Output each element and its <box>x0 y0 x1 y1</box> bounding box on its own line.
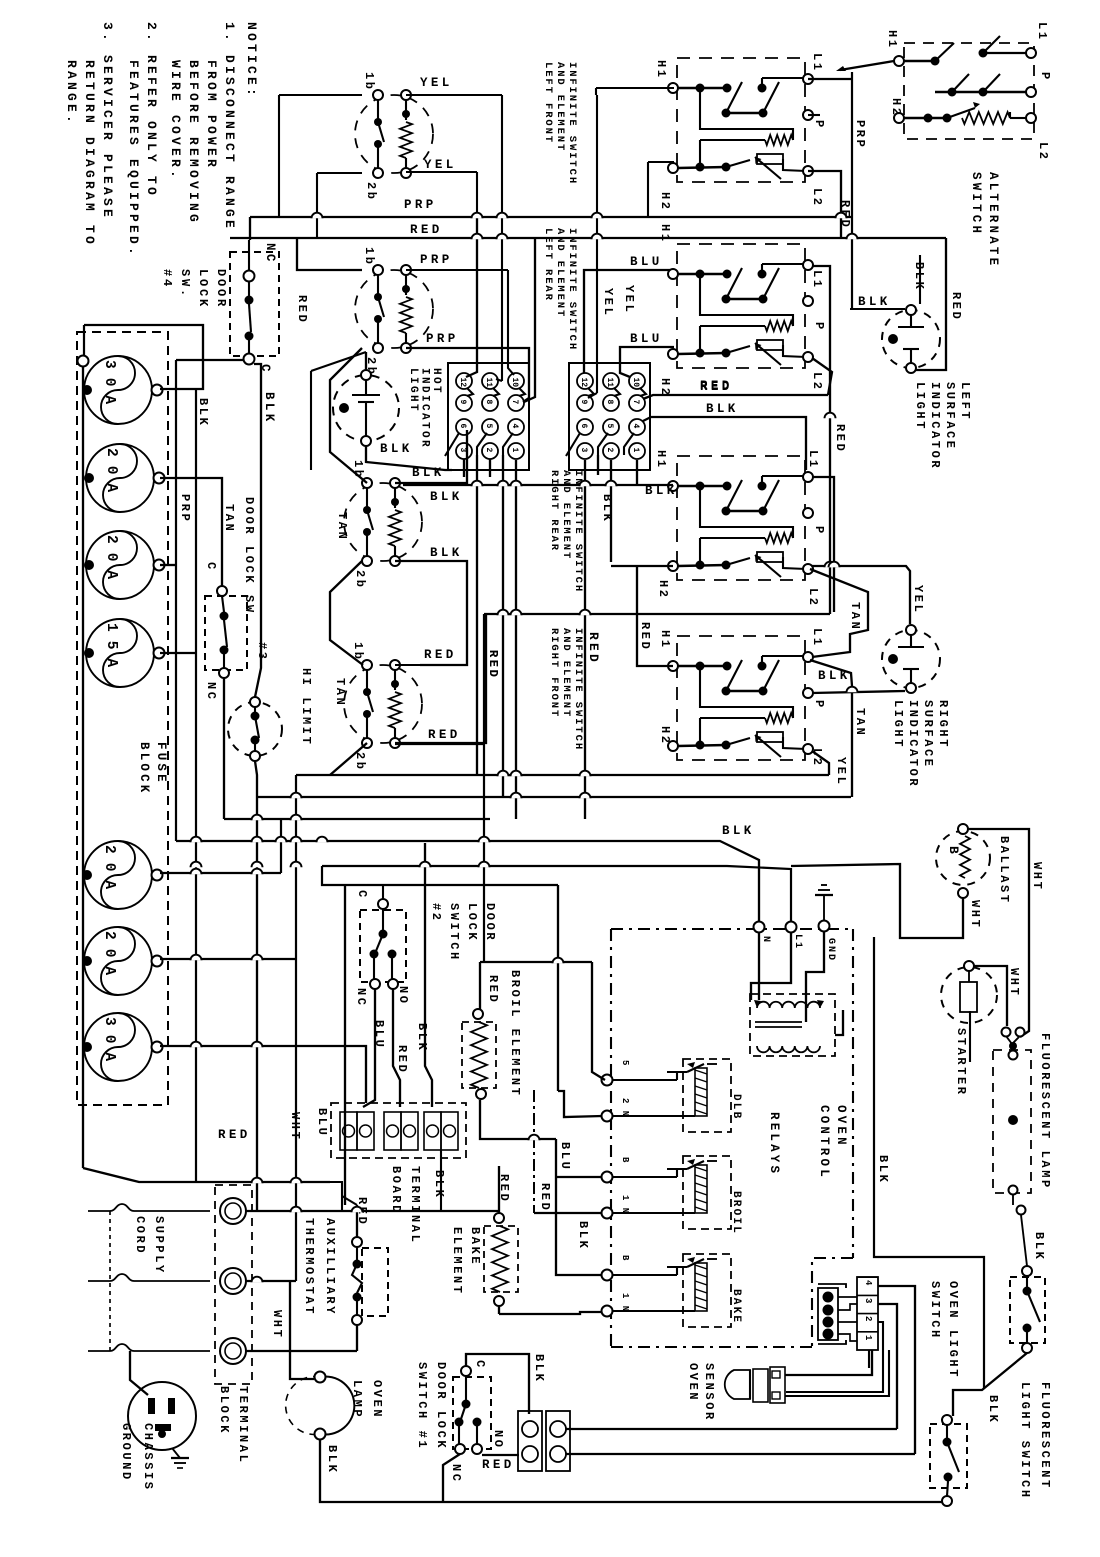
wire to BROIL <box>556 1176 602 1178</box>
svg-text:PRP: PRP <box>178 494 192 523</box>
wire WHT to lamp <box>290 1281 314 1379</box>
svg-text:HOT: HOT <box>430 368 442 395</box>
svg-text:YEL: YEL <box>601 288 615 317</box>
svg-text:1. DISCONNECT RANGE: 1. DISCONNECT RANGE <box>222 22 237 231</box>
svg-text:5: 5 <box>620 1060 630 1066</box>
svg-text:L1: L1 <box>810 628 824 648</box>
jumper wire <box>614 388 620 396</box>
connector pair 2 <box>384 1112 401 1150</box>
jumper wire <box>445 433 459 456</box>
jumper wire <box>503 433 513 455</box>
svg-text:30A: 30A <box>101 360 117 413</box>
wire RR L1 right <box>812 477 834 612</box>
wire BLK right long <box>874 937 984 1388</box>
svg-text:OVEN: OVEN <box>834 1105 848 1148</box>
svg-text:RANGE.: RANGE. <box>64 60 79 126</box>
svg-text:P: P <box>812 700 826 710</box>
ballast <box>936 831 990 885</box>
terminal 12 <box>577 373 593 389</box>
svg-text:N: N <box>760 936 771 944</box>
wire RED vertical x484 <box>483 614 485 962</box>
terminal stud 2 <box>220 1268 246 1294</box>
contact <box>952 74 969 92</box>
wire YEL down to board2-9 <box>596 95 598 393</box>
terminal H2 <box>668 349 678 359</box>
svg-text:RED: RED <box>586 632 601 665</box>
svg-text:10: 10 <box>631 378 640 388</box>
wire <box>365 380 367 395</box>
relay BAKE <box>683 1254 731 1327</box>
svg-text:NC: NC <box>204 682 218 702</box>
svg-text:BLU: BLU <box>630 255 663 269</box>
svg-text:OVEN: OVEN <box>686 1363 700 1402</box>
terminal C SW3 <box>217 586 227 596</box>
wire RR L2 YEL to right light <box>812 566 910 624</box>
wire NO to connector <box>482 1454 519 1456</box>
terminal element left top <box>373 90 383 100</box>
wire pin to switch <box>1021 1215 1027 1266</box>
svg-text:BLK: BLK <box>576 1221 590 1250</box>
wire H1 <box>678 485 727 488</box>
svg-text:WHT: WHT <box>288 1112 302 1141</box>
jumper wire <box>467 388 473 396</box>
wire fuse5 <box>160 872 281 874</box>
thermal arm <box>947 108 975 118</box>
wire fuse3 <box>160 564 176 566</box>
terminal L2 <box>803 352 813 362</box>
element coil <box>400 297 412 333</box>
wire LF bottom left <box>317 172 362 174</box>
wire <box>910 315 912 327</box>
svg-text:B: B <box>620 1255 630 1261</box>
terminal 1 <box>508 443 524 459</box>
wire fuse left bus <box>82 355 84 1168</box>
svg-text:WIRE COVER.: WIRE COVER. <box>168 60 183 181</box>
svg-text:NC: NC <box>263 243 277 265</box>
oven control box <box>611 928 853 930</box>
svg-text:LOCK: LOCK <box>465 903 479 942</box>
svg-text:SURFACE: SURFACE <box>921 700 935 769</box>
fuse 30A <box>84 356 152 424</box>
wire <box>366 670 368 692</box>
terminal element left top <box>373 265 383 275</box>
terminal L2 <box>803 564 813 574</box>
wire vertical x176 <box>175 360 177 841</box>
wire hot light bottom to board <box>366 446 452 470</box>
svg-text:RED: RED <box>486 975 500 1004</box>
svg-text:NC: NC <box>354 988 368 1008</box>
svg-text:3. SERVICER PLEASE: 3. SERVICER PLEASE <box>100 22 115 220</box>
thermal arm arrow <box>755 157 781 179</box>
wire BLK long vertical <box>195 389 197 1182</box>
svg-text:BLK: BLK <box>1032 1232 1046 1261</box>
svg-text:H1: H1 <box>654 450 668 470</box>
svg-text:SWITCH: SWITCH <box>928 1281 942 1340</box>
wire board2-3 down <box>584 460 586 819</box>
svg-text:P: P <box>1038 72 1052 82</box>
terminal relay bottom <box>602 1111 613 1122</box>
terminal <box>250 697 260 707</box>
svg-text:TAN: TAN <box>222 504 236 533</box>
terminal relay top <box>602 1270 613 1281</box>
svg-text:NOTICE:: NOTICE: <box>244 22 259 99</box>
terminal H2 <box>668 561 678 571</box>
terminal 6 <box>577 419 593 435</box>
terminal 8 <box>603 395 619 411</box>
wire RR H2 to RF H1 jog <box>637 566 673 666</box>
resistor alt <box>962 112 1010 124</box>
terminal L2 <box>803 166 813 176</box>
svg-text:LEFT FRONT: LEFT FRONT <box>542 62 554 144</box>
svg-text:H1: H1 <box>658 224 672 244</box>
terminal light top <box>906 625 916 635</box>
wire down to PRP bus <box>278 95 280 217</box>
svg-text:L2: L2 <box>810 188 824 208</box>
wire cord bundle <box>109 1211 111 1351</box>
svg-text:NO: NO <box>491 1430 505 1450</box>
switch contacts <box>722 687 731 696</box>
terminal NC SW3 <box>219 668 229 678</box>
infinite switch right front <box>677 636 805 760</box>
wire <box>280 819 282 873</box>
svg-text:LIGHT: LIGHT <box>913 382 927 431</box>
terminal 3 <box>577 443 593 459</box>
terminal element left bottom <box>362 738 372 748</box>
thermal arm arrow <box>755 735 781 757</box>
wire BLK to left light <box>850 308 905 310</box>
jumper wire <box>588 388 594 396</box>
wire RED board2-7 to L2 <box>643 395 828 399</box>
svg-text:BLK: BLK <box>722 824 755 838</box>
svg-text:BLU: BLU <box>630 332 663 346</box>
wire stud3 <box>246 1350 357 1352</box>
terminal relay top <box>602 1172 613 1183</box>
terminal board middle <box>331 1103 466 1158</box>
wire to BROIL 2 <box>534 1212 602 1214</box>
surface element unit <box>344 483 422 561</box>
svg-text:B: B <box>620 1157 630 1163</box>
surface element unit <box>355 95 433 173</box>
wire <box>968 971 970 982</box>
infinite switch right rear <box>677 456 805 580</box>
svg-text:RETURN DIAGRAM TO: RETURN DIAGRAM TO <box>82 60 97 247</box>
wire RR right top <box>395 430 467 483</box>
svg-text:GROUND: GROUND <box>119 1423 133 1482</box>
svg-text:2. REFER ONLY TO: 2. REFER ONLY TO <box>144 22 159 198</box>
terminal H2 alt <box>894 113 904 123</box>
alternate switch <box>904 43 1034 139</box>
jumper wire <box>519 388 525 396</box>
svg-text:TERMINAL: TERMINAL <box>236 1386 250 1464</box>
wire <box>946 1425 948 1438</box>
terminal element right bottom <box>390 556 400 566</box>
wire <box>377 275 379 297</box>
svg-text:WHT: WHT <box>270 1310 284 1339</box>
terminal starter top <box>964 961 974 971</box>
wire strip3 long <box>878 1304 897 1429</box>
contact <box>983 36 1000 53</box>
svg-text:C: C <box>355 890 369 900</box>
switch contact <box>367 692 373 712</box>
terminal 5 <box>482 419 498 435</box>
svg-text:YEL: YEL <box>424 158 457 172</box>
svg-text:C: C <box>204 562 218 572</box>
oven sensor bulb <box>725 1370 750 1399</box>
svg-text:HI LIMIT: HI LIMIT <box>299 668 313 746</box>
wire RR 2b chain to RF 1b <box>330 561 363 665</box>
ground symbol chassis <box>172 1448 180 1458</box>
svg-text:L1: L1 <box>806 450 820 470</box>
svg-text:12: 12 <box>458 378 467 388</box>
svg-text:BLK: BLK <box>415 1023 429 1052</box>
terminal L1 <box>786 922 797 933</box>
svg-text:3: 3 <box>863 1298 873 1303</box>
terminal L1 <box>803 652 813 662</box>
wire PRP bus to NC <box>249 217 251 240</box>
wire board1-2 stub <box>489 459 491 477</box>
svg-text:BLK: BLK <box>876 1155 890 1184</box>
svg-text:CONTROL: CONTROL <box>817 1105 831 1180</box>
wire PRP down to board <box>508 270 514 375</box>
svg-text:2: 2 <box>605 448 614 453</box>
wire C BLK up <box>466 1354 529 1414</box>
svg-text:BAKE: BAKE <box>730 1289 742 1324</box>
fuse block outline <box>77 332 168 1105</box>
svg-text:SENSOR: SENSOR <box>702 1363 716 1422</box>
svg-text:L2: L2 <box>1036 142 1050 162</box>
svg-text:5: 5 <box>484 424 493 429</box>
wire <box>377 100 379 122</box>
heater loop resistor <box>700 666 793 718</box>
svg-text:FLUORESCENT LAMP: FLUORESCENT LAMP <box>1038 1033 1052 1190</box>
terminal element left bottom <box>373 343 383 353</box>
svg-text:CHASSIS: CHASSIS <box>141 1423 155 1492</box>
terminal C SW4 <box>244 354 255 365</box>
svg-text:FUSE: FUSE <box>154 742 168 785</box>
svg-text:H2: H2 <box>658 726 672 746</box>
contact <box>352 1264 362 1293</box>
wire H1 LF <box>596 87 674 89</box>
wire stud2 WHT <box>246 1280 296 1282</box>
thermal arm arrow <box>755 343 781 365</box>
hi-limit thermostat <box>228 702 282 756</box>
door lock switch SW3 <box>205 596 247 670</box>
terminal relay bottom <box>602 1306 613 1317</box>
terminal H1 <box>668 269 678 279</box>
svg-text:NC: NC <box>449 1464 463 1484</box>
terminal fuse bus top <box>78 356 89 367</box>
contact <box>255 716 259 738</box>
dot <box>339 403 349 413</box>
svg-text:BOARD: BOARD <box>389 1166 403 1215</box>
svg-text:RED: RED <box>424 648 457 662</box>
wire <box>377 144 379 168</box>
fuse 20A <box>86 444 154 512</box>
fuse 20A <box>84 927 152 995</box>
svg-text:WHT: WHT <box>1030 862 1044 891</box>
terminal light bottom <box>906 363 916 373</box>
ballast coil <box>960 836 970 878</box>
terminal board right <box>569 363 650 470</box>
wire L1 <box>762 263 806 265</box>
svg-text:YEL: YEL <box>622 285 636 314</box>
terminal <box>522 1446 538 1462</box>
svg-text:DOOR LOCK: DOOR LOCK <box>434 1362 448 1450</box>
right surface indicator light <box>882 630 940 688</box>
wire L2 LR diag <box>812 358 832 395</box>
relay coil <box>695 1068 707 1116</box>
svg-text:DOOR: DOOR <box>483 903 497 942</box>
ground symbol <box>823 895 825 921</box>
svg-text:BLOCK: BLOCK <box>137 742 151 796</box>
wire RR L2 TAN to RF L1 <box>810 569 868 657</box>
wire BLU to board2-12 <box>584 270 674 373</box>
wire H1 <box>678 87 727 90</box>
terminal P <box>803 296 813 306</box>
svg-text:7: 7 <box>510 400 519 405</box>
svg-text:SURFACE: SURFACE <box>943 382 957 451</box>
wire box top <box>345 884 558 886</box>
svg-text:20A: 20A <box>101 931 117 984</box>
svg-text:#3: #3 <box>255 642 269 662</box>
wire <box>910 635 912 647</box>
terminal L2 alt <box>1026 113 1036 123</box>
switch contact <box>378 297 384 317</box>
wire H1 arrow <box>840 61 894 70</box>
wire bake top <box>498 1166 500 1213</box>
terminal element left bottom <box>362 556 372 566</box>
svg-text:FEATURES EQUIPPED.: FEATURES EQUIPPED. <box>126 60 141 258</box>
svg-text:9: 9 <box>458 400 467 405</box>
svg-text:H1: H1 <box>654 60 668 80</box>
switch contacts <box>722 295 731 304</box>
contact <box>461 1404 466 1419</box>
terminal relay top <box>602 1075 613 1086</box>
terminal 9 <box>577 395 593 411</box>
wire RED bus upper <box>230 237 535 239</box>
svg-text:OVEN: OVEN <box>370 1380 384 1419</box>
svg-text:8: 8 <box>484 400 493 405</box>
svg-text:1 N: 1 N <box>620 1195 630 1214</box>
wire box left <box>344 885 346 1205</box>
terminal H1 <box>668 661 678 671</box>
svg-text:LIGHT: LIGHT <box>891 700 905 749</box>
wire L1 <box>762 77 806 79</box>
wire board1-3 stub <box>463 459 465 477</box>
dot <box>888 654 898 664</box>
wire BLK down <box>425 843 432 1107</box>
terminal element left top <box>362 478 372 488</box>
wire <box>612 1176 677 1178</box>
svg-text:BLK: BLK <box>986 1395 1000 1424</box>
wire PRP bus <box>250 216 852 218</box>
terminal <box>1022 1266 1032 1276</box>
svg-text:BLK: BLK <box>532 1354 546 1383</box>
door lock switch SW4 <box>230 252 279 356</box>
wire <box>1012 1195 1014 1205</box>
wire <box>405 275 407 295</box>
wire to L1 <box>322 866 791 927</box>
svg-text:INFINITE SWITCH: INFINITE SWITCH <box>566 62 578 185</box>
svg-text:OVEN LIGHT: OVEN LIGHT <box>946 1281 960 1379</box>
svg-text:DOOR LOCK SW.: DOOR LOCK SW. <box>242 497 256 624</box>
svg-text:L2: L2 <box>810 372 824 392</box>
wire broil bottom <box>480 1100 556 1139</box>
wire RF L2 YEL to bus <box>812 751 829 775</box>
svg-text:2b: 2b <box>364 182 378 202</box>
svg-text:SWITCH: SWITCH <box>969 172 983 236</box>
fuse 20A <box>86 531 154 599</box>
terminal element right top <box>401 265 411 275</box>
svg-text:20A: 20A <box>101 845 117 898</box>
terminal 4 <box>508 419 524 435</box>
wire YEL right <box>406 94 502 96</box>
wire RED to left light bottom <box>916 238 946 370</box>
terminal H1 <box>668 481 678 491</box>
terminal board left <box>448 363 529 470</box>
svg-text:H2: H2 <box>656 580 670 600</box>
wire hops <box>498 771 509 777</box>
wire SW3 NC down to bus <box>223 678 225 819</box>
wire <box>405 100 407 120</box>
contact <box>935 43 954 61</box>
wire sensor 4 long <box>566 1453 915 1455</box>
wire NC down BLU <box>363 989 375 1107</box>
terminal block <box>215 1185 252 1384</box>
wire L1 LF right <box>808 78 852 80</box>
wire switch to fluor switch <box>953 1353 1027 1416</box>
wire <box>612 1115 695 1117</box>
wire fuse7 BLU to board <box>160 1046 366 1103</box>
door lock switch SW2 <box>360 910 406 982</box>
terminal light bottom <box>906 683 916 693</box>
svg-text:WHT: WHT <box>1007 968 1021 997</box>
svg-text:BLK: BLK <box>325 1445 339 1474</box>
wire P LF stub <box>808 114 820 116</box>
svg-text:8: 8 <box>605 400 614 405</box>
broil element <box>473 1009 483 1019</box>
left surface indicator light <box>882 310 940 368</box>
contact <box>667 1266 687 1268</box>
jumper wire <box>598 433 608 455</box>
svg-text:INDICATOR: INDICATOR <box>928 382 942 470</box>
wire pins join <box>1006 1036 1019 1044</box>
svg-text:H2: H2 <box>658 192 672 212</box>
terminal N <box>754 922 765 933</box>
wire down to RED bus <box>316 173 318 238</box>
wire lamp bottom BLK long <box>320 1440 947 1502</box>
switch contacts <box>722 109 731 118</box>
svg-text:BLK: BLK <box>600 494 614 523</box>
terminal element right top <box>401 90 411 100</box>
wire RF 2b left down <box>330 743 367 775</box>
svg-text:LAMP: LAMP <box>350 1380 364 1419</box>
terminal 4 <box>629 419 645 435</box>
wire <box>983 52 1026 54</box>
wire strip4 long <box>878 1286 915 1454</box>
wire bake bottom <box>498 1306 500 1314</box>
svg-text:RED: RED <box>700 379 733 393</box>
wire bus y819 <box>224 818 490 820</box>
relay coil <box>695 1165 707 1213</box>
wire board pair3 down <box>440 1150 442 1211</box>
svg-text:LIGHT SWITCH: LIGHT SWITCH <box>1018 1382 1032 1500</box>
terminal 8 <box>482 395 498 411</box>
svg-text:11: 11 <box>484 378 493 388</box>
wire RR 2b right to RF 1b right <box>395 561 467 665</box>
wire H1 <box>678 665 727 668</box>
wire sensor 3 long <box>566 1428 897 1430</box>
